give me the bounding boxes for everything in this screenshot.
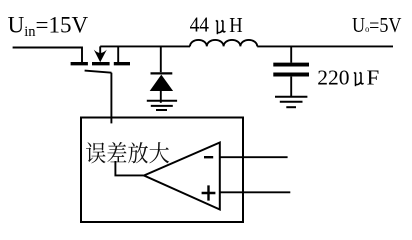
glyph cha (差): [107, 142, 126, 162]
svg-text:F: F: [367, 66, 380, 90]
glyph wu (误): [86, 142, 106, 163]
pin label plus noninverting input: [202, 185, 216, 200]
capacitor C1 220uF: [273, 65, 309, 96]
transistor V1 P-MOSFET switch: [71, 46, 130, 72]
wire inductor to output: [257, 45, 393, 47]
svg-text:Uin=15V: Uin=15V: [8, 12, 89, 40]
label mu of 220uF: [354, 72, 364, 86]
svg-text:H: H: [229, 13, 242, 37]
wire input from Uin to transistor source: [13, 48, 82, 63]
glyph da (大): [149, 142, 169, 163]
label 误差放大 (error amplifier): [86, 142, 169, 163]
ground for capacitor: [275, 97, 307, 108]
diode VD1 freewheeling: [150, 73, 173, 102]
pin label minus inverting input: [204, 156, 213, 158]
glyph fang (放): [128, 142, 148, 163]
label mu of 44uH: [216, 20, 226, 34]
error amplifier block box: [81, 118, 243, 223]
svg-text:44: 44: [190, 12, 210, 36]
ground for diode: [147, 101, 177, 110]
wire noninverting input line: [220, 191, 290, 193]
svg-text:Uo=5V: Uo=5V: [352, 13, 402, 37]
wire inverting input line: [220, 156, 288, 158]
wire switch node to inductor: [100, 45, 190, 47]
op-amp A1 triangle: [144, 143, 220, 210]
inductor L1 44uH: [190, 40, 257, 47]
svg-text:220: 220: [317, 66, 349, 90]
wire diode branch lead: [160, 46, 162, 72]
wire error amp output to op-amp apex: [115, 161, 143, 175]
wire capacitor branch lead: [290, 46, 292, 62]
wire gate drive from error amp into box: [110, 73, 112, 124]
